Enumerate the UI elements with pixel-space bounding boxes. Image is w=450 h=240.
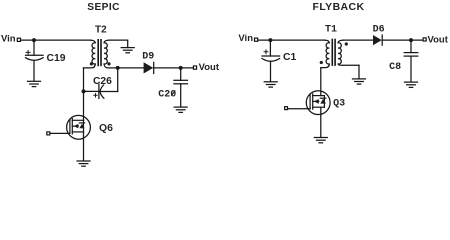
junction C19/Vin xyxy=(32,38,36,42)
diode D9 xyxy=(144,62,154,73)
svg-text:FLYBACK: FLYBACK xyxy=(313,1,365,13)
wire T2 primary bottom down to switch node xyxy=(83,68,85,92)
capacitor C26 xyxy=(94,84,118,98)
transistor Q6 xyxy=(67,115,91,139)
wire Q6 source to ground xyxy=(83,132,85,161)
phase dot T2 secondary xyxy=(107,62,110,65)
svg-text:C1: C1 xyxy=(283,52,297,63)
capacitor C19 xyxy=(26,40,44,81)
svg-text:Vout: Vout xyxy=(199,62,220,73)
wire C26 right lead up to diode rail xyxy=(117,68,119,92)
ground C1 xyxy=(264,82,277,87)
wire C26 left lead xyxy=(84,90,99,92)
terminal Vout (SEPIC) xyxy=(193,66,196,69)
terminal Q3 gate xyxy=(285,107,288,110)
phase dot T2 primary xyxy=(90,62,93,65)
ground T2 secondary top xyxy=(121,48,134,53)
wire Q3 source to ground xyxy=(320,107,322,137)
wire D9 to output xyxy=(154,67,193,69)
svg-text:C19: C19 xyxy=(47,53,66,64)
svg-text:Q6: Q6 xyxy=(99,123,113,134)
junction C20 xyxy=(179,66,183,70)
transformer T2 primary winding xyxy=(84,40,96,68)
svg-text:C26: C26 xyxy=(93,76,112,87)
ground C19 xyxy=(28,81,41,86)
wire D6 to output xyxy=(383,39,423,41)
ground C8 xyxy=(405,82,418,87)
wire T2 secondary top to ground xyxy=(109,40,128,47)
svg-text:D6: D6 xyxy=(373,24,385,35)
transformer T1 core xyxy=(331,40,333,66)
svg-text:Q3: Q3 xyxy=(333,99,345,110)
svg-text:Vin: Vin xyxy=(1,33,16,44)
terminal Vin (SEPIC) xyxy=(17,38,20,41)
label C20 slashed zero xyxy=(172,91,175,95)
transistor Q3 xyxy=(306,91,330,115)
wire T1 secondary top to D6 xyxy=(343,39,373,41)
wire Vin rail to T2 xyxy=(21,39,91,41)
svg-text:T1: T1 xyxy=(325,24,337,35)
ground T1 secondary xyxy=(353,79,366,84)
transformer T2 secondary winding xyxy=(104,40,118,68)
phase dot T1 primary xyxy=(320,61,323,64)
terminal Q6 gate xyxy=(47,132,50,135)
junction diode rail xyxy=(116,66,120,70)
wire switch node to Q6 drain xyxy=(83,91,85,120)
svg-text:C8: C8 xyxy=(389,62,401,73)
svg-text:Vin: Vin xyxy=(238,33,253,44)
diode D6 xyxy=(373,35,382,45)
terminal Vout (FLYBACK) xyxy=(423,38,426,41)
junction switch node / C26 xyxy=(82,89,86,93)
ground Q6 xyxy=(77,161,90,166)
capacitor C1 xyxy=(262,40,280,81)
wire Vin rail to T1 xyxy=(258,39,325,41)
junction C1/Vin xyxy=(268,38,272,42)
wire T1 secondary bottom to ground xyxy=(358,65,360,79)
phase dot T1 secondary xyxy=(345,42,348,45)
terminal Vin (FLYBACK) xyxy=(255,38,258,41)
capacitor C8 xyxy=(404,40,418,82)
transformer T1 primary winding xyxy=(321,40,330,68)
wire T1 primary bottom to Q3 drain xyxy=(320,68,322,96)
svg-text:C20: C20 xyxy=(158,90,176,101)
ground Q3 xyxy=(314,138,327,143)
capacitor C20 xyxy=(174,68,188,107)
svg-text:D9: D9 xyxy=(142,52,154,63)
wire Q6 gate xyxy=(50,132,70,134)
junction C8 xyxy=(409,38,413,42)
svg-text:SEPIC: SEPIC xyxy=(87,2,120,13)
svg-text:T2: T2 xyxy=(95,25,107,36)
transformer T1 secondary winding xyxy=(338,40,359,65)
svg-text:Vout: Vout xyxy=(428,34,449,45)
wire Q3 gate xyxy=(288,108,310,110)
transformer T2 core xyxy=(97,40,99,66)
wire diode rail to D9 xyxy=(118,67,144,69)
ground C20 xyxy=(174,107,187,112)
